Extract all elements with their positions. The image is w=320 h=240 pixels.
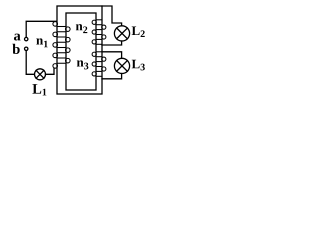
primary winding n1 rungs across left limb <box>57 27 66 64</box>
wire from n2 top over core to lamp L2 <box>102 6 122 26</box>
node a terminal circle <box>25 37 28 40</box>
primary winding n1 left ears <box>53 22 58 27</box>
wire from n3 top to lamp L3 <box>102 52 122 59</box>
secondary winding n3 right ears <box>102 57 106 61</box>
label L1 <box>32 84 46 95</box>
node label a <box>14 34 21 41</box>
lamp L3 <box>114 58 129 73</box>
secondary winding n3 left ears <box>92 52 96 56</box>
windings group <box>53 20 106 77</box>
label L3 <box>132 60 145 71</box>
wire from terminal a up and right to primary top <box>26 21 56 37</box>
transformer core inner rectangle <box>66 13 96 90</box>
wire from lamp L3 bottom back to n3 <box>102 74 122 79</box>
label L2 <box>132 26 145 37</box>
label n2 <box>76 24 87 33</box>
lamp L2 <box>114 26 129 41</box>
transformer core outer rectangle <box>57 6 102 94</box>
wire from lamp L2 bottom back to n2 <box>102 41 122 45</box>
label n3 <box>77 60 89 69</box>
secondary winding n2 rungs across right limb <box>96 20 102 45</box>
wire from lamp L1 to primary bottom <box>46 68 55 74</box>
secondary winding n2 right ears <box>102 25 106 29</box>
primary winding n1 right ears <box>66 27 71 32</box>
label n1 <box>36 38 47 47</box>
node label b <box>12 44 19 54</box>
wire from terminal b down to lamp L1 <box>26 51 34 75</box>
secondary winding n3 rungs across right limb <box>96 52 102 77</box>
secondary winding n2 left ears <box>92 20 96 24</box>
node b terminal circle <box>25 47 28 50</box>
labels <box>12 24 144 95</box>
lamp L1 <box>35 69 46 80</box>
